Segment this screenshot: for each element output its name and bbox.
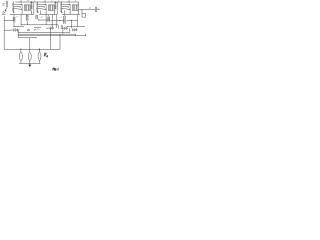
wire T2 lead down [54,10,56,14]
svg-text:Fa: Fa [43,52,48,58]
resistor R4 [63,14,66,24]
bus wire b2 [38,19,48,21]
bottom tie wire [19,62,41,64]
wire v56 [56,14,58,28]
wire drop output [81,9,83,13]
bus wire b4 [21,24,58,26]
under wire segment 2 [39,13,57,15]
reference numerals top [20,0,99,9]
tube V3 leads [62,4,70,10]
battery B3 [63,27,68,30]
coupling box T3 [72,5,78,10]
under wire segment 3 [62,13,80,15]
node dots on top bus [13,1,70,2]
supply bus f4 [18,37,37,39]
battery B1 [11,28,20,31]
resistor Z3 [38,49,41,63]
wire T3 lead down [78,10,80,14]
resistor R1 [13,14,16,22]
antenna coil L1 [6,1,8,8]
wire v696 [69,28,71,33]
tube V2 leads [38,4,46,10]
grid coil L3 [54,2,56,10]
wire drop stage3 [69,4,71,14]
tube V3 [60,2,62,13]
wire R1 to b5 [13,22,15,26]
wire coil2 return [33,2,35,14]
bias box B4 [82,14,86,18]
under wire segment 1 [10,13,34,15]
tube V1 [12,2,14,13]
tube V1 leads [14,4,22,10]
wire riser x60 [59,34,61,49]
battery B4b [72,28,77,31]
resistor R1b [26,15,29,21]
wire bat1 left lead [4,29,11,31]
grid coil L2 [30,2,32,10]
arrow lead [5,7,7,11]
resistor R2 [36,15,39,19]
svg-text:Fig. 1: Fig. 1 [52,68,60,71]
label 7 [34,29,36,31]
resistor Z1 [19,49,22,63]
wire left drop [3,16,5,49]
label 6 [27,29,29,31]
output capacitor C1 [95,7,100,12]
battery B2 [46,27,53,30]
label 2 [2,12,6,15]
wire v63 [62,28,64,34]
wire v21 [20,14,22,24]
wire tick Z1 [20,48,22,49]
bus wire b5b [67,26,86,28]
resistor R3 [48,14,51,22]
wire R1b to bus [26,21,28,25]
supply bus f2 [18,33,75,35]
wire bat1 drop [17,30,19,38]
supply bus f1 [18,32,69,34]
coupling box T1 [24,5,30,10]
wire T1 lead down [31,10,33,14]
wire mid drop to bottom [29,38,31,50]
wire coil3 return [57,2,59,14]
supply bus f3 [18,35,86,37]
wire v77 [77,14,79,26]
wire top bus [15,1,78,3]
node dots bottom [20,48,40,51]
reference numerals mid [17,16,62,18]
wire stub stage2 [40,11,42,15]
bus wire b1 [4,19,13,21]
coupling box T2 [48,5,54,10]
output wire [79,8,96,10]
capacitor C2 [58,25,62,29]
node dots b row [37,29,39,31]
wire v52 [51,14,53,28]
bus wire b3b [67,20,78,22]
wire stub stage3 [64,11,66,15]
wire tick Z3 [39,48,41,49]
wire v71 [71,21,73,29]
bottom bus [4,48,60,50]
ground [28,63,31,67]
input label scribble [2,3,4,5]
tube V2 [36,2,38,13]
bus wire b3 [50,20,63,22]
bus wire b5 [13,26,24,28]
bus wire b6 [34,27,41,29]
wire drop stage2 [45,4,47,25]
node dots mid [13,20,72,26]
wire drop stage1 [21,4,23,14]
resistor Z2 [28,49,31,63]
